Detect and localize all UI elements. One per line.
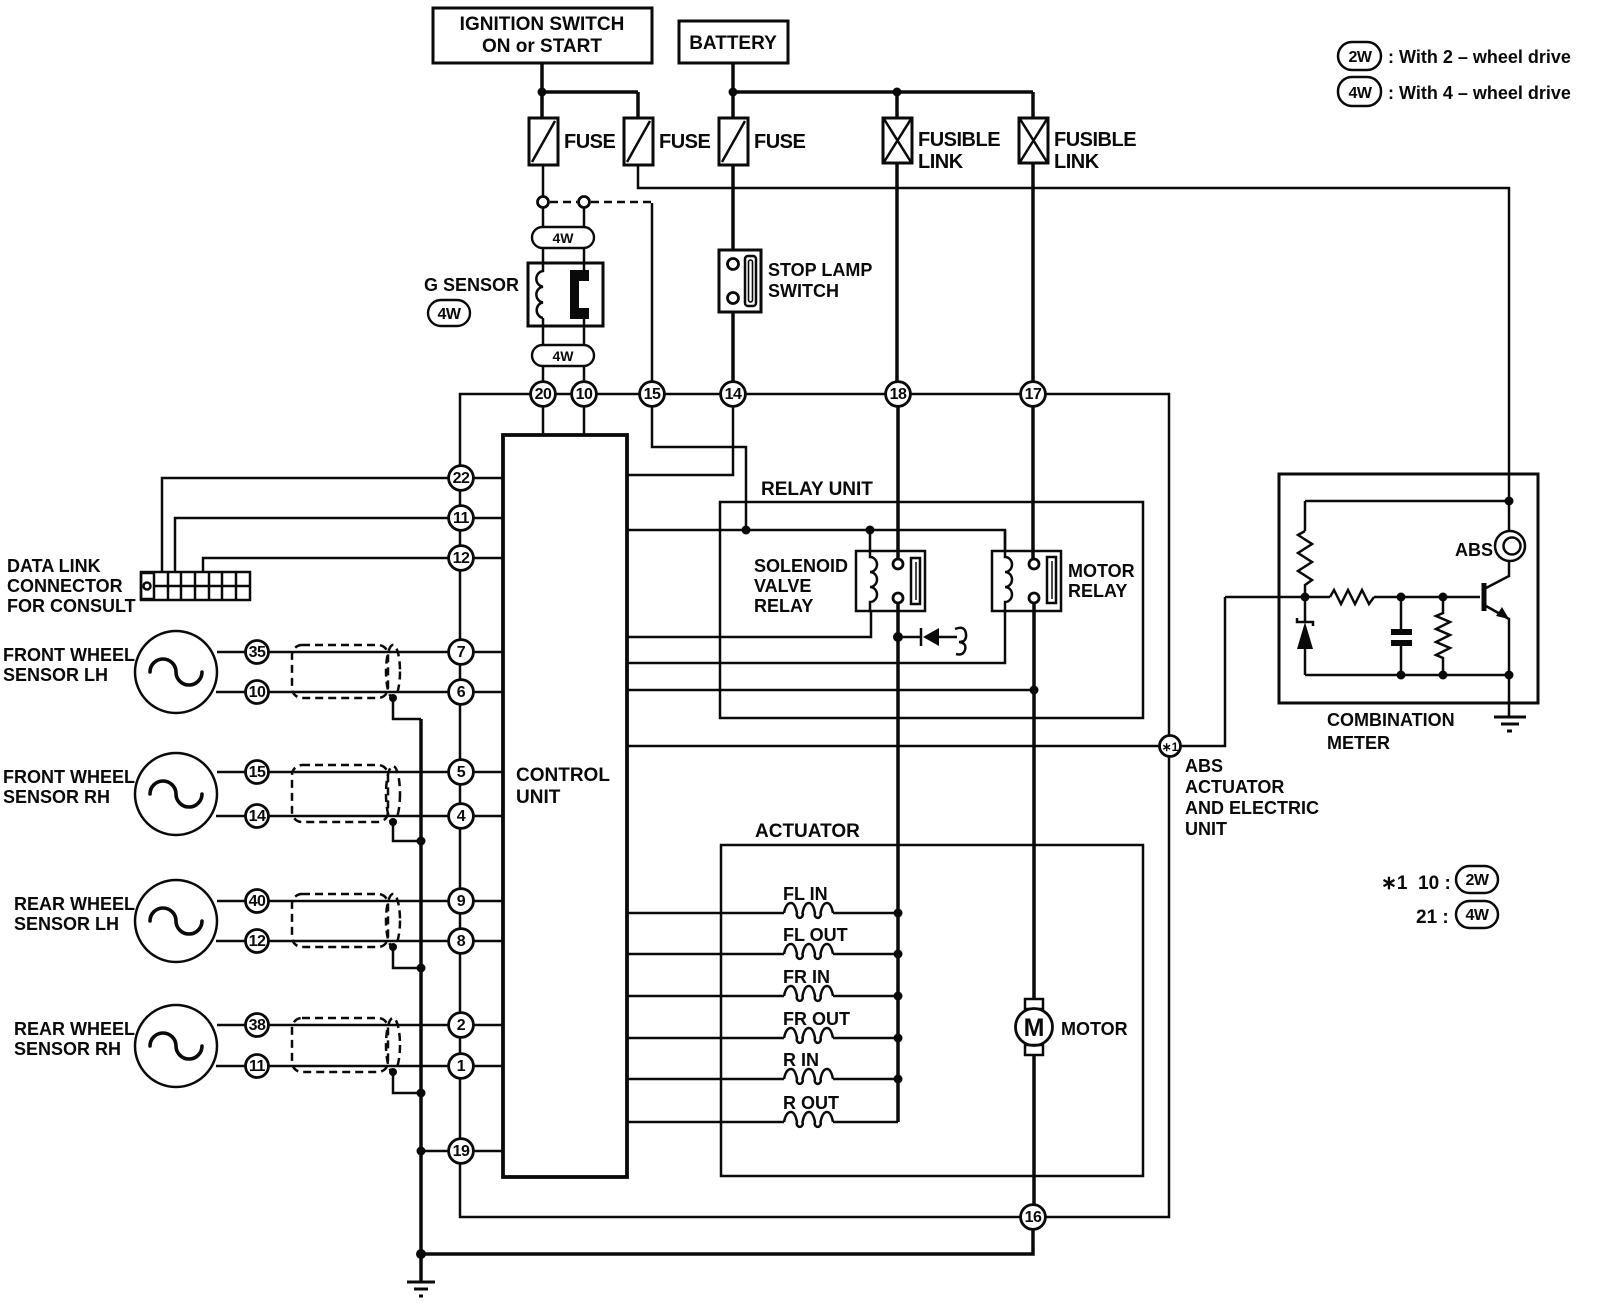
pin circle 19 [449,1139,474,1164]
solenoid coil FR OUT [783,1009,898,1043]
svg-text:RELAY: RELAY [1068,581,1127,601]
svg-text:M: M [1024,1014,1045,1042]
wire fusible link2 to pin 17 [1031,163,1035,382]
svg-text:SWITCH: SWITCH [768,281,839,301]
svg-text:METER: METER [1327,733,1390,753]
wire battery bus [733,63,1033,118]
svg-text:10: 10 [249,684,266,701]
svg-text:FL OUT: FL OUT [783,925,848,945]
svg-text:: With 2 – wheel drive: : With 2 – wheel drive [1388,47,1571,67]
svg-text:35: 35 [249,644,266,661]
pin circle 6 [449,680,474,705]
pin circle 8 [449,929,474,954]
svg-text:REAR WHEEL: REAR WHEEL [14,1019,135,1039]
svg-text:FUSE: FUSE [659,131,711,153]
pin circle 16 [1021,1205,1046,1230]
fuse F2 [624,118,711,165]
wire solenoid coil return y637 [627,611,871,637]
svg-text:AND ELECTRIC: AND ELECTRIC [1185,798,1319,818]
ABS actuator unit label [1185,756,1319,839]
svg-text:2W: 2W [1349,49,1373,66]
wire sensor FWLH lower [216,691,503,694]
wire control unit to R IN [627,1078,784,1081]
svg-text:12: 12 [249,933,266,950]
svg-text:6: 6 [457,684,466,701]
svg-text:22: 22 [453,470,470,487]
pin circle 14s [246,805,269,828]
legend 2W [1338,42,1571,70]
shield drain FWLH [389,694,421,719]
wire pin10 into control unit [583,406,586,435]
shield drain RWRH [389,1068,426,1098]
wire sensor FWRH lower [216,815,503,818]
combination meter box [1279,474,1538,753]
svg-text:COMBINATION: COMBINATION [1327,710,1455,730]
svg-text:10: 10 [576,386,593,403]
svg-text:REAR WHEEL: REAR WHEEL [14,894,135,914]
svg-text:16: 16 [1025,1209,1042,1226]
wire pin20 into control unit [542,406,545,435]
shield drain FWRH [389,818,426,846]
junction dot battery feed [729,88,738,97]
pin circle 9 [449,889,474,914]
svg-text:FL IN: FL IN [783,884,828,904]
svg-text:FUSE: FUSE [564,131,616,153]
junction dot FR OUT [894,1034,903,1043]
svg-text:4W: 4W [438,306,462,323]
svg-text:FR OUT: FR OUT [783,1009,850,1029]
pin circle 35 [246,641,269,664]
connector open circle A [538,197,549,208]
zener diode ZD1 [1297,597,1313,675]
svg-text:LINK: LINK [918,151,964,173]
svg-text:2W: 2W [1466,872,1490,889]
shield RWRH [292,1018,400,1072]
junction dot ground bus left [416,1249,426,1259]
solenoid coil R IN [783,1050,898,1084]
svg-text:7: 7 [457,644,466,661]
svg-text:G SENSOR: G SENSOR [424,275,519,295]
svg-text:SENSOR RH: SENSOR RH [3,787,110,807]
pin circle 38 [246,1014,269,1037]
svg-text:MOTOR: MOTOR [1061,1019,1128,1039]
svg-text:∗1: ∗1 [1162,740,1179,754]
svg-text:12: 12 [453,550,470,567]
svg-text:8: 8 [457,933,466,950]
pin circle 15 [640,382,665,407]
resistor R3 [1436,597,1450,675]
svg-text:ACTUATOR: ACTUATOR [1185,777,1284,797]
fusible link FL1 [883,118,1000,173]
transistor Q1 [1484,561,1509,675]
junction dot R IN [894,1075,903,1084]
svg-text:R OUT: R OUT [783,1093,839,1113]
wire solenoid valve relay feed y530 [627,530,1005,551]
meter ground [1494,675,1526,731]
svg-text:1: 1 [457,1058,466,1075]
svg-text:ABS: ABS [1185,756,1223,776]
pin circle 17 [1021,382,1046,407]
wire pin19 to ground bus [417,1147,504,1156]
svg-text:15: 15 [644,386,661,403]
junction dot ignition feed [538,88,547,97]
shield FWRH [292,765,400,822]
wire data link to pin11 [175,518,503,572]
svg-text:FRONT WHEEL: FRONT WHEEL [3,645,135,665]
svg-text:STOP LAMP: STOP LAMP [768,260,872,280]
legend 4W [1338,77,1571,106]
wire solenoid relay contact to actuator bus [896,603,900,1122]
svg-text:20: 20 [535,386,552,403]
wire fusible link1 to pin 18 [895,163,899,382]
ABS actuator and electric unit outer box [460,394,1169,1217]
G sensor [528,263,603,326]
junction dot solenoid output [893,632,903,642]
svg-text:CONTROL: CONTROL [516,765,610,786]
svg-text:BATTERY: BATTERY [689,33,777,54]
junction dot solenoid coil feed [866,526,875,535]
diode D1 [903,628,966,655]
pin circle 5 [449,760,474,785]
wire sensor RWLH lower [216,940,503,943]
svg-text:SENSOR LH: SENSOR LH [14,914,119,934]
svg-text:4: 4 [457,808,466,825]
pin circle *1 [1160,736,1181,757]
svg-text:CONNECTOR: CONNECTOR [7,576,123,596]
wire control unit to FL IN [627,912,784,915]
pin circle 15s [246,761,269,784]
ABS warning bulb [1455,531,1525,561]
solenoid coil R OUT [783,1093,898,1127]
svg-text:FUSIBLE: FUSIBLE [1054,129,1136,151]
pin circle 12 [449,546,474,571]
svg-text:DATA LINK: DATA LINK [7,556,101,576]
pin circle 11s [246,1055,269,1078]
capacitor C1 [1391,597,1412,675]
svg-text:ACTUATOR: ACTUATOR [755,821,860,842]
control unit box [503,435,627,1177]
wire to pin 15 [651,203,654,382]
svg-text:SENSOR LH: SENSOR LH [3,665,108,685]
wire motor relay contact to motor [1032,603,1036,999]
solenoid coil FR IN [783,967,898,1001]
4W oval tag for G sensor [428,300,470,326]
wire meter to pin *1 [1181,597,1225,746]
G SENSOR label [424,275,519,295]
wire sensor FWLH upper [217,651,503,654]
svg-text:LINK: LINK [1054,151,1100,173]
wire pin17 to motor relay contact [1031,406,1035,559]
legend *1 footnote [1381,866,1498,928]
svg-text:SENSOR RH: SENSOR RH [14,1039,121,1059]
svg-text:19: 19 [453,1143,470,1160]
wire motor to pin16 [1032,1055,1036,1205]
svg-text:21 :: 21 : [1416,907,1449,928]
wire sensor RWRH upper [217,1024,503,1027]
shield FWLH [292,645,400,698]
shield RWLH [292,894,400,947]
motor M1 [1016,999,1128,1055]
connector open circle B [579,197,590,208]
junction dot FL OUT [894,950,903,959]
svg-text:ABS: ABS [1455,540,1493,560]
resistor R1 [1298,531,1312,597]
relay unit box [720,479,1143,718]
resistor R2 [1330,590,1374,604]
svg-text:4W: 4W [553,230,575,246]
svg-text:11: 11 [249,1058,266,1075]
pin circle 7 [449,640,474,665]
svg-text:4W: 4W [1349,85,1373,102]
pin circle 11 [449,506,474,531]
svg-text:4W: 4W [553,348,575,364]
rear wheel sensor LH [14,880,217,962]
rear wheel sensor RH [14,1005,217,1087]
stop lamp switch [719,250,872,312]
svg-text:MOTOR: MOTOR [1068,561,1135,581]
pin circle 14 [721,382,746,407]
wire motor relay coil return y663 [627,611,1005,663]
meter bottom wire [1305,671,1514,680]
wire data link to pin22 [162,478,503,572]
svg-text:15: 15 [249,764,266,781]
wire control unit to ABS warning pin *1 [627,745,1159,748]
svg-text:FRONT WHEEL: FRONT WHEEL [3,767,135,787]
pin circle 2 [449,1013,474,1038]
wire pin16 to ground bus [421,1229,1033,1254]
pin circle 18 [886,382,911,407]
fuse F1 [529,118,616,165]
wire G sensor left leg [542,207,545,382]
svg-text:18: 18 [890,386,907,403]
wire ignition switch to fuses [542,63,638,118]
4W tag lower [532,345,594,366]
wire control unit to R OUT [627,1121,784,1124]
pin circle 20 [531,382,556,407]
shield drain bus wire [419,719,423,1281]
pin circle 4 [449,804,474,829]
svg-text:FOR CONSULT: FOR CONSULT [7,596,136,616]
pin circle 1 [449,1054,474,1079]
svg-text:17: 17 [1025,386,1042,403]
wire stop lamp switch to pin 14 [731,312,735,382]
junction dot fusible link 1 feed [893,88,902,97]
pin circle 10s [246,681,269,704]
svg-text:FUSE: FUSE [754,131,806,153]
junction dot pin15 feed [742,526,751,535]
4W tag upper [532,227,594,248]
svg-text:∗1 10 :: ∗1 10 : [1381,873,1451,894]
junction dot FR IN [894,992,903,1001]
svg-text:: With 4 – wheel drive: : With 4 – wheel drive [1388,83,1571,103]
svg-text:40: 40 [249,893,266,910]
svg-text:5: 5 [457,764,466,781]
wire control unit to FR OUT [627,1037,784,1040]
ignition switch box [433,8,652,63]
data link connector for consult [7,556,250,616]
svg-text:VALVE: VALVE [754,576,811,596]
solenoid coil FL IN [783,884,898,918]
wire data link to pin12 [203,558,503,572]
meter mid wire from pin *1 [1225,593,1480,602]
wire G sensor right leg [583,207,586,382]
motor relay [992,530,1135,611]
solenoid coil FL OUT [783,925,898,959]
dashed 4W jumper wires [550,201,652,204]
svg-text:R IN: R IN [783,1050,819,1070]
fuse F3 [719,118,806,165]
wire control unit to FR IN [627,995,784,998]
wire fuse1 to 4W connector [542,165,545,197]
svg-text:UNIT: UNIT [516,787,561,808]
svg-text:11: 11 [453,510,470,527]
svg-text:UNIT: UNIT [1185,819,1227,839]
svg-text:ON or START: ON or START [482,36,602,57]
svg-text:IGNITION SWITCH: IGNITION SWITCH [460,14,625,35]
pin circle 40 [246,890,269,913]
svg-text:38: 38 [249,1017,266,1034]
svg-text:RELAY UNIT: RELAY UNIT [761,479,873,500]
wire fuse3 to stop lamp switch [731,165,735,250]
svg-text:FR IN: FR IN [783,967,830,987]
wire sensor FWRH upper [217,771,503,774]
front wheel sensor RH [3,753,217,835]
wire pin18 to solenoid relay contact [896,406,900,559]
pin circle 10 [572,382,597,407]
junction dot FL IN [894,909,903,918]
wire control unit to FL OUT [627,953,784,956]
wire pin14 into control unit [627,406,733,475]
svg-text:FUSIBLE: FUSIBLE [918,129,1000,151]
battery box [679,21,788,63]
svg-text:14: 14 [725,386,742,403]
actuator box [721,821,1143,1176]
pin circle 12s [246,930,269,953]
shield drain RWLH [389,943,426,973]
solenoid valve relay [754,530,925,616]
svg-text:RELAY: RELAY [754,596,813,616]
ground symbol main [407,1282,435,1296]
meter internal top wire [1305,474,1514,531]
wire sensor RWRH lower [216,1065,503,1068]
wire fuse2 to combination meter [638,165,1509,474]
junction dot motor line monitor [1030,686,1039,695]
pin circle 22 [449,466,474,491]
front wheel sensor LH [3,631,217,713]
wire motor relay monitor y690 [627,689,1034,692]
svg-text:SOLENOID: SOLENOID [754,556,848,576]
svg-text:4W: 4W [1466,907,1490,924]
fusible link FL2 [1019,118,1136,173]
svg-text:2: 2 [457,1017,466,1034]
svg-text:9: 9 [457,893,466,910]
wire pin15 to solenoid feed line [652,406,746,530]
wire sensor RWLH upper [217,900,503,903]
svg-text:14: 14 [249,808,266,825]
